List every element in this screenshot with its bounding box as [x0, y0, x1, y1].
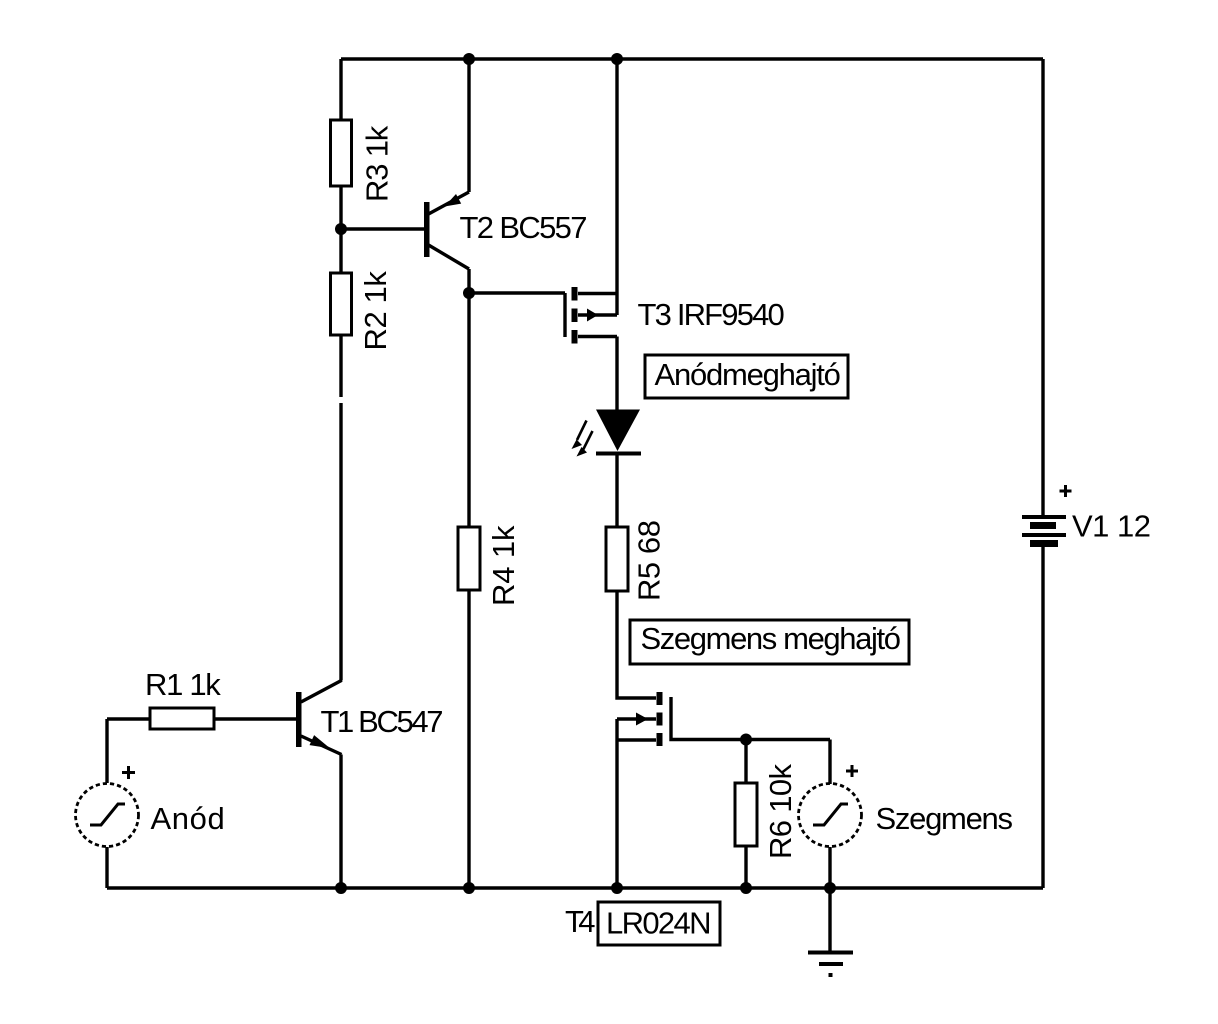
- svg-text:Szegmens: Szegmens: [876, 801, 1014, 836]
- svg-text:R2 1k: R2 1k: [358, 271, 393, 351]
- svg-text:R5 68: R5 68: [632, 520, 667, 601]
- svg-text:R3 1k: R3 1k: [360, 125, 395, 202]
- svg-text:V1 12: V1 12: [1072, 509, 1151, 544]
- svg-text:Anód: Anód: [151, 801, 225, 836]
- svg-text:T2 BC557: T2 BC557: [460, 210, 588, 245]
- svg-text:Szegmens meghajtó: Szegmens meghajtó: [641, 621, 902, 656]
- svg-text:T4: T4: [565, 904, 596, 939]
- svg-text:R1 1k: R1 1k: [145, 667, 221, 702]
- svg-text:LR024N: LR024N: [606, 906, 712, 941]
- svg-text:R4 1k: R4 1k: [486, 525, 521, 606]
- svg-text:R6 10k: R6 10k: [763, 764, 798, 860]
- svg-text:Anódmeghajtó: Anódmeghajtó: [655, 357, 841, 392]
- svg-text:T3 IRF9540: T3 IRF9540: [638, 297, 785, 332]
- svg-text:T1 BC547: T1 BC547: [321, 704, 444, 739]
